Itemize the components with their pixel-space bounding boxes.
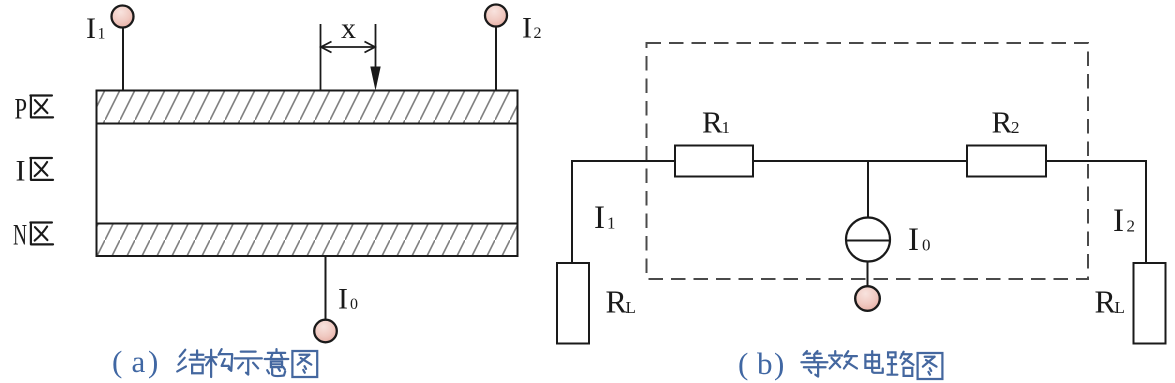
svg-text:N: N xyxy=(13,219,27,252)
svg-text:b: b xyxy=(757,346,773,381)
label RL right xyxy=(1095,284,1125,320)
terminal I0 (pink ball) xyxy=(314,320,337,343)
wire center vertical xyxy=(867,161,869,218)
label R1 xyxy=(702,105,730,140)
label I1 (branch current) xyxy=(594,200,616,236)
caption (a) chinese text xyxy=(177,349,317,377)
dimension arrow x (double-headed) xyxy=(321,42,376,53)
svg-text:L: L xyxy=(626,298,636,317)
svg-text:): ) xyxy=(148,344,158,379)
svg-text:I: I xyxy=(1113,203,1124,239)
label N region hanzi QU xyxy=(30,223,53,245)
label I region xyxy=(16,155,26,188)
wire main horizontal xyxy=(572,160,1146,162)
svg-text:R: R xyxy=(992,105,1013,140)
svg-text:I: I xyxy=(338,283,348,316)
caption (b) chinese text xyxy=(801,351,942,379)
label R2 xyxy=(992,105,1020,140)
label N region xyxy=(13,219,27,252)
svg-text:I: I xyxy=(908,222,919,258)
load resistor RL right xyxy=(1134,263,1166,344)
resistor R1 xyxy=(675,146,753,177)
caption (b) latin part xyxy=(738,346,784,381)
svg-text:1: 1 xyxy=(607,214,616,233)
caption (a) latin part xyxy=(112,344,158,379)
svg-text:R: R xyxy=(702,105,723,140)
light spot arrow (filled) xyxy=(370,67,380,91)
label I2 xyxy=(522,12,542,45)
svg-text:I: I xyxy=(594,200,605,236)
svg-text:(: ( xyxy=(738,346,748,381)
svg-text:(: ( xyxy=(112,344,122,379)
svg-text:0: 0 xyxy=(922,236,931,255)
region P layer (hatched) xyxy=(97,91,518,124)
label P region xyxy=(15,92,28,125)
wire source bottom lead xyxy=(867,262,869,288)
load resistor RL left xyxy=(557,263,589,344)
label x xyxy=(341,12,356,45)
resistor R2 xyxy=(967,146,1046,177)
label I1 xyxy=(86,12,106,45)
region N layer (hatched) xyxy=(97,224,518,257)
wire terminal I2 lead xyxy=(495,27,497,91)
dimension tick left xyxy=(320,24,322,91)
svg-text:1: 1 xyxy=(722,118,731,137)
svg-text:1: 1 xyxy=(98,26,106,43)
wire terminal I0 lead xyxy=(325,256,327,320)
terminal I2 (pink ball) xyxy=(485,5,507,27)
wire right vertical xyxy=(1145,160,1147,263)
svg-text:2: 2 xyxy=(1011,118,1020,137)
svg-text:P: P xyxy=(15,92,28,125)
svg-text:2: 2 xyxy=(534,25,542,42)
label I0 xyxy=(338,283,358,316)
label I0 (source) xyxy=(908,222,931,258)
svg-text:I: I xyxy=(86,12,96,45)
label P region hanzi QU xyxy=(30,96,53,118)
current source I0 xyxy=(846,218,890,262)
svg-text:): ) xyxy=(774,346,784,381)
svg-text:2: 2 xyxy=(1127,217,1136,236)
terminal source (pink ball) xyxy=(855,286,880,311)
svg-text:x: x xyxy=(341,12,356,45)
svg-text:I: I xyxy=(522,12,532,45)
svg-text:I: I xyxy=(16,155,26,188)
svg-text:R: R xyxy=(606,284,628,320)
label RL left xyxy=(606,284,636,320)
svg-text:R: R xyxy=(1095,284,1117,320)
svg-text:0: 0 xyxy=(350,296,358,313)
dimension tick right xyxy=(375,24,377,67)
label I region hanzi QU xyxy=(30,158,53,180)
dashed boundary box xyxy=(647,43,1089,279)
terminal I1 (pink ball) xyxy=(112,6,134,28)
label I2 (branch current) xyxy=(1113,203,1135,239)
wire terminal I1 lead xyxy=(122,28,124,91)
svg-text:L: L xyxy=(1115,298,1125,317)
wire left vertical xyxy=(571,160,573,263)
svg-text:a: a xyxy=(132,344,146,379)
region I layer xyxy=(97,124,518,224)
